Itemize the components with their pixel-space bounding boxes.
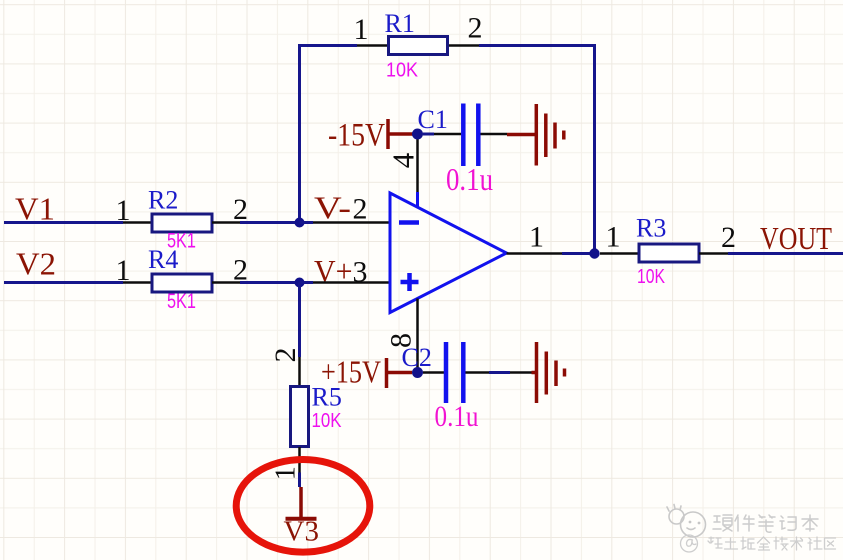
wire feedback top horizontal: [298, 44, 596, 47]
ground symbol (C2): [532, 342, 565, 403]
net VOUT: [760, 220, 832, 256]
wire feedback left vertical: [298, 44, 301, 223]
svg-text:R4: R4: [148, 245, 178, 274]
junction node C2/+15V: [412, 367, 423, 378]
svg-text:2: 2: [353, 193, 368, 226]
pin number 1 (R2): [116, 194, 131, 227]
svg-text:C1: C1: [418, 105, 448, 134]
svg-text:10K: 10K: [312, 410, 343, 432]
svg-text:1: 1: [606, 221, 621, 254]
junction node V-: [295, 218, 305, 228]
pin 1 lead of R1: [357, 44, 389, 47]
value 10K (R1): [386, 60, 419, 82]
resistor R4: [152, 274, 212, 292]
wire C2 right: [466, 371, 532, 374]
designator R2: [148, 186, 178, 215]
wire R2 to V- node: [240, 221, 300, 224]
power port +15V: [321, 354, 412, 390]
wire VOUT: [728, 252, 843, 255]
svg-text:V2: V2: [16, 246, 56, 282]
pin 1 lead of R2: [123, 221, 152, 224]
svg-text:10K: 10K: [637, 266, 666, 288]
designator R1: [385, 9, 415, 38]
wire pin 8 vertical: [416, 299, 419, 373]
svg-text:R3: R3: [636, 214, 666, 243]
op-amp U1: [390, 193, 507, 313]
svg-text:1: 1: [270, 466, 301, 480]
junction node C1/-15V: [412, 129, 423, 140]
resistor R2: [152, 214, 212, 232]
watermark icon: [667, 505, 706, 538]
svg-text:0.1u: 0.1u: [446, 161, 493, 197]
wire pin 4 vertical: [416, 134, 419, 208]
designator C1: [418, 105, 448, 134]
resistor R1: [389, 37, 448, 55]
svg-text:VOUT: VOUT: [760, 220, 832, 256]
junction node output: [589, 248, 599, 258]
capacitor C2: [446, 342, 463, 403]
value 10K (R3): [637, 266, 666, 288]
net label V+: [314, 253, 353, 289]
pin number 1 (R1): [354, 13, 369, 46]
svg-text:2: 2: [721, 221, 736, 254]
net V1: [15, 191, 55, 227]
designator R4: [148, 245, 178, 274]
designator C2: [402, 343, 432, 372]
pin number 2 (R4): [233, 254, 248, 287]
pin number 1 (op-amp output): [529, 221, 544, 254]
pin 2 lead of R4: [212, 281, 240, 284]
wire R5 bottom: [298, 447, 301, 487]
pin 1 lead of R4: [123, 281, 152, 284]
net V2: [16, 246, 56, 282]
resistor R3: [639, 244, 699, 262]
value 10K (R5): [312, 410, 343, 432]
svg-text:V-: V-: [314, 190, 351, 226]
pin number 2 (R3): [721, 221, 736, 254]
wire op-amp output: [507, 252, 595, 255]
svg-text:2: 2: [468, 12, 483, 45]
wire C1 left: [423, 133, 461, 136]
power port -15V: [328, 118, 413, 154]
svg-text:2: 2: [269, 348, 302, 363]
wire V+ node to op-amp: [300, 281, 391, 284]
wire V+ node down to R5: [298, 283, 301, 387]
value 5K1 (R2): [167, 230, 196, 253]
watermark text line 2 (@稀土掘金技术社区): [681, 535, 836, 552]
value 0.1u (C1): [446, 161, 493, 197]
pin number 3 (op-amp non-inverting): [353, 256, 368, 289]
pin number 4 label (rotated): [386, 152, 421, 168]
wire C1 right: [481, 133, 508, 136]
pin number 2 (op-amp inverting): [353, 193, 368, 226]
pin number 1 (R4): [116, 254, 131, 287]
pin number 1 label (rotated, R5 bottom): [270, 466, 301, 480]
designator R5: [312, 383, 342, 412]
svg-text:0.1u: 0.1u: [435, 400, 479, 433]
svg-text:5K1: 5K1: [167, 290, 196, 313]
designator R3: [636, 214, 666, 243]
power port V3: [284, 487, 319, 548]
svg-text:10K: 10K: [386, 60, 419, 82]
value 5K1 (R4): [167, 290, 196, 313]
value 0.1u (C2): [435, 400, 479, 433]
wire feedback right vertical: [593, 44, 596, 254]
svg-text:R1: R1: [385, 9, 415, 38]
pin 1 lead of R3: [600, 252, 639, 255]
wire R4 to V+ node: [240, 281, 300, 284]
pin 2 lead of R2: [212, 221, 240, 224]
capacitor C1: [463, 104, 478, 167]
svg-text:V3: V3: [284, 516, 319, 548]
watermark text line 1 (硬件笔记本): [713, 515, 818, 532]
resistor R5: [291, 387, 309, 447]
pin number 8 label (rotated): [384, 333, 417, 348]
pin 2 lead of R1: [448, 44, 480, 47]
wire V2: [4, 281, 123, 284]
wire V- node to op-amp: [300, 221, 391, 224]
svg-text:R5: R5: [312, 383, 342, 412]
junction node V+: [295, 278, 305, 288]
pin number 1 (R3): [606, 221, 621, 254]
svg-text:-15V: -15V: [328, 118, 385, 154]
svg-text:R2: R2: [148, 186, 178, 215]
ground symbol (C1): [507, 104, 564, 166]
svg-text:1: 1: [354, 13, 369, 46]
wire C2 left: [423, 371, 445, 374]
pin number 2 (R1): [468, 12, 483, 45]
net label V-: [314, 190, 351, 226]
wire V1: [4, 221, 123, 224]
svg-text:1: 1: [529, 221, 544, 254]
pin number 2 (R2): [233, 193, 248, 226]
pin 2 lead of R3: [699, 252, 728, 255]
annotation red ellipse: [236, 460, 370, 553]
svg-text:4: 4: [386, 152, 421, 168]
pin number 2 label (rotated, R5 top): [269, 348, 302, 363]
